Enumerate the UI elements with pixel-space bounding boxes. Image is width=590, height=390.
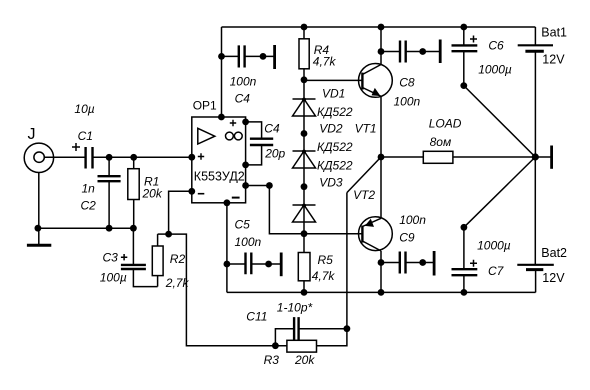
- capacitor C7 plates: [452, 269, 478, 275]
- wire: C5 right lead: [251, 263, 281, 265]
- capacitor C5 plates: [246, 253, 252, 275]
- battery Bat2: [517, 157, 554, 292]
- svg-text:C1: C1: [78, 129, 93, 143]
- node: C7 top: [461, 224, 468, 231]
- svg-text:VD3: VD3: [319, 176, 343, 190]
- svg-text:LOAD: LOAD: [429, 116, 462, 130]
- pin node: op-amp comp top right: [242, 119, 249, 126]
- wire: VT1 collector to rail: [380, 27, 382, 65]
- wire: op-amp V- leg down to rail: [226, 203, 228, 293]
- svg-text:C3: C3: [103, 251, 119, 265]
- wire: to C4 100n left: [222, 55, 239, 57]
- node: C6 bottom: [460, 82, 467, 89]
- node: C4 100n branch on supply vertical: [218, 53, 225, 60]
- wire: ground bus: [38, 227, 133, 229]
- capacitor C1 plates: [86, 147, 93, 169]
- svg-text:1n: 1n: [82, 182, 96, 196]
- op-amp U1 К553УД2: [192, 117, 246, 203]
- svg-text:VT2: VT2: [353, 188, 375, 202]
- svg-text:OP1: OP1: [193, 98, 217, 112]
- wire: output to LOAD: [381, 156, 423, 158]
- svg-text:J: J: [28, 126, 36, 143]
- svg-text:К553УД2: К553УД2: [194, 170, 245, 184]
- svg-text:1-10p*: 1-10p*: [277, 301, 313, 315]
- svg-text:КД522: КД522: [317, 140, 353, 154]
- node: C2 branch: [106, 154, 113, 161]
- resistor R4: [299, 39, 309, 69]
- terminal bar: common point: [550, 146, 553, 169]
- wire: op-amp V+ supply vertical: [221, 27, 223, 117]
- pin node: op-amp V- bottom: [224, 199, 231, 206]
- svg-text:VD2: VD2: [319, 122, 343, 136]
- svg-text:R2: R2: [170, 252, 186, 266]
- wire: to VT1 base: [304, 79, 362, 81]
- node: R5 on rail: [301, 289, 308, 296]
- plus sign C1: [72, 143, 80, 151]
- wire: to C5: [227, 263, 246, 265]
- wire: C7 top lead from diagonal: [463, 227, 465, 269]
- svg-text:20k: 20k: [294, 353, 315, 367]
- terminal bar at C8: [439, 40, 442, 64]
- wire: op-amp output to driver node: [246, 186, 363, 234]
- svg-text:КД522: КД522: [317, 105, 353, 119]
- capacitor C6 plates: [452, 45, 478, 51]
- wire: output node to VT2 emitter: [380, 157, 382, 218]
- wire: to C9: [381, 262, 400, 264]
- node: C7 on rail: [461, 289, 468, 296]
- terminal bar at C4 100n: [273, 45, 276, 69]
- wire: C1 to op-amp +input: [93, 156, 192, 158]
- wire: feedback node jog to R2: [158, 233, 169, 235]
- svg-text:КД522: КД522: [317, 159, 353, 173]
- node: feedback junction: [165, 231, 172, 238]
- node: output corner: [266, 182, 273, 189]
- wire: inverting input feedback: [169, 191, 192, 234]
- resistor LOAD 8ом: [423, 151, 453, 163]
- capacitor C2: [98, 157, 121, 228]
- wire: VT2 collector down: [380, 251, 382, 293]
- ground: [27, 244, 51, 247]
- capacitor C9 plates: [400, 252, 406, 274]
- node: VT1 base branch: [301, 76, 308, 83]
- svg-text:C11: C11: [246, 310, 267, 324]
- wire: diagonal junction to C6: [464, 86, 536, 157]
- svg-text:12V: 12V: [542, 53, 565, 67]
- wire: R4 bottom to diode string: [303, 69, 305, 99]
- svg-text:VD1: VD1: [322, 86, 345, 100]
- wire: C11 right lead: [299, 328, 347, 330]
- svg-text:C7: C7: [488, 264, 505, 278]
- wire: junction to terminal bar: [535, 156, 551, 158]
- svg-text:C4: C4: [264, 122, 280, 136]
- svg-text:12V: 12V: [542, 271, 565, 285]
- terminal bar at C5: [280, 253, 283, 277]
- svg-text:20p: 20p: [264, 147, 285, 161]
- wire: VT1 emitter to output node: [380, 96, 382, 157]
- svg-text:1000µ: 1000µ: [477, 239, 511, 253]
- node: R1 bottom / C3 top: [130, 225, 137, 232]
- resistor R3: [287, 340, 317, 352]
- pin node: op-amp comp mid right: [242, 162, 249, 169]
- svg-text:C2: C2: [81, 199, 97, 213]
- svg-text:4,7k: 4,7k: [312, 269, 336, 283]
- plus sign C6: [470, 36, 477, 43]
- svg-text:1000µ: 1000µ: [478, 63, 512, 77]
- capacitor C4 20p: [246, 122, 274, 165]
- wire: rail to C6: [463, 27, 465, 45]
- input connector J: [24, 143, 53, 172]
- svg-text:Bat1: Bat1: [541, 26, 567, 40]
- wire: bottom -12V rail: [227, 291, 536, 293]
- node: C4 100n right: [260, 53, 267, 60]
- node: C2 bottom on ground bus: [106, 225, 113, 232]
- svg-text:C6: C6: [488, 39, 504, 53]
- svg-text:R5: R5: [318, 253, 334, 267]
- svg-text:100n: 100n: [230, 75, 257, 89]
- wire: R3 right to feedback vertical: [317, 329, 347, 346]
- node: R3 left: [272, 342, 279, 349]
- node: C8 right: [419, 48, 426, 55]
- node: C8 branch: [378, 48, 385, 55]
- pin node: op-amp output: [242, 182, 249, 189]
- wire: top +12V rail: [222, 26, 536, 28]
- node: output (emitters junction): [378, 154, 385, 161]
- svg-text:C5: C5: [235, 218, 251, 232]
- svg-text:C8: C8: [399, 75, 415, 89]
- capacitor C8 plates: [400, 41, 406, 63]
- svg-text:100n: 100n: [235, 235, 262, 249]
- svg-text:C4: C4: [235, 92, 251, 106]
- wire: C7 bottom to rail: [463, 275, 465, 292]
- svg-text:C9: C9: [399, 230, 415, 244]
- plus sign C3: [121, 254, 127, 260]
- node: C6 on rail: [460, 24, 467, 31]
- wire: feedback vertical drop: [346, 193, 348, 329]
- node: C9 branch: [378, 259, 385, 266]
- node: VT1 collector on rail: [378, 24, 385, 31]
- svg-text:4,7k: 4,7k: [313, 55, 337, 69]
- pin node: op-amp V+ top: [218, 114, 225, 121]
- node: input ground: [35, 225, 42, 232]
- terminal bar at C9: [433, 251, 436, 276]
- svg-text:100n: 100n: [394, 94, 421, 108]
- node: diode bottom / VT2 base / R5 top: [301, 230, 308, 237]
- diode VD1: [293, 98, 316, 116]
- svg-text:VT1: VT1: [355, 122, 377, 136]
- wire: output diagonal to feedback drop: [347, 157, 381, 193]
- pin node: op-amp non-inverting input: [188, 154, 195, 161]
- wire: rail to R4: [303, 27, 305, 39]
- transistor VT1: [359, 64, 393, 98]
- diode VD2: [293, 150, 316, 168]
- node: right common junction: [532, 153, 539, 160]
- capacitor C3: [121, 228, 158, 286]
- svg-text:100µ: 100µ: [100, 271, 127, 285]
- battery Bat1: [518, 27, 553, 157]
- wire: C9 right lead: [406, 262, 435, 264]
- node: C5 branch: [224, 261, 231, 268]
- node: C5 right: [265, 261, 272, 268]
- svg-text:Bat2: Bat2: [541, 246, 567, 260]
- node: C9 right: [419, 259, 426, 266]
- node: R4 top on rail: [301, 24, 308, 31]
- wire: VD1 to VD2: [303, 99, 305, 151]
- wire: R3 left up to C11 row: [275, 329, 294, 346]
- transistor VT2: [359, 217, 393, 251]
- wire: C8 right lead: [406, 51, 441, 53]
- node: R1 branch: [130, 154, 137, 161]
- resistor R1: [128, 157, 139, 228]
- svg-text:10µ: 10µ: [74, 102, 94, 116]
- plus sign C7: [470, 260, 477, 267]
- node: VT2 collector on rail: [378, 289, 385, 296]
- wire: connector to C1: [44, 156, 85, 158]
- wire: VD2 to VD3: [303, 151, 305, 205]
- wire: LOAD to right junction: [453, 156, 535, 158]
- capacitor C11 plates: [294, 317, 299, 340]
- resistor R2: [152, 234, 163, 287]
- svg-text:100n: 100n: [399, 213, 426, 227]
- svg-text:8ом: 8ом: [430, 135, 452, 149]
- wire: VD3 to bottom node: [303, 205, 305, 234]
- pin node: op-amp inverting input: [188, 188, 195, 195]
- capacitor C4 100n plates: [239, 45, 245, 67]
- wire: to C8: [381, 51, 400, 53]
- diode VD3: [293, 204, 316, 222]
- wire: diagonal junction to C7: [464, 157, 535, 227]
- node: between VD2 and VD3: [301, 183, 308, 190]
- wire: C4 100n right lead: [245, 55, 275, 57]
- resistor R5: [298, 234, 310, 293]
- svg-text:20k: 20k: [142, 187, 163, 201]
- wire: feedback node to R3 leg: [169, 234, 287, 346]
- svg-text:R3: R3: [264, 353, 280, 367]
- node: C11 right / output feedback: [344, 325, 351, 332]
- node: between VD1 and VD2: [301, 130, 308, 137]
- wire: C6 bottom lead: [463, 51, 465, 85]
- wire: connector ground leg: [38, 172, 40, 244]
